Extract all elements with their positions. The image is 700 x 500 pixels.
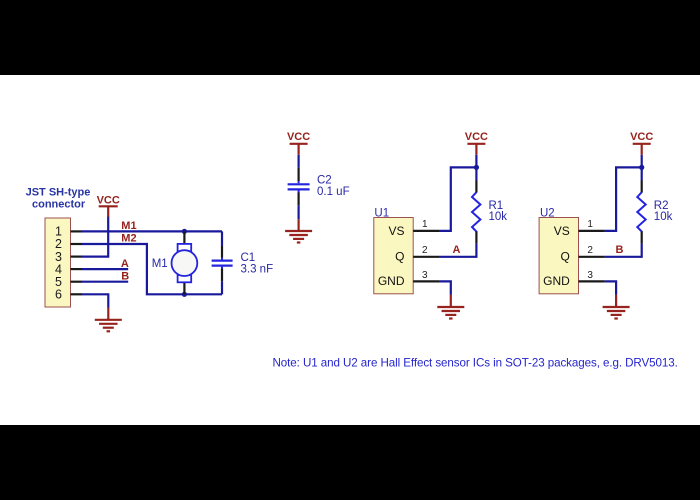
svg-text:JST SH-type: JST SH-type (26, 187, 91, 199)
svg-text:C2: C2 (317, 175, 332, 187)
svg-text:A: A (453, 244, 461, 256)
svg-text:connector: connector (32, 198, 86, 210)
svg-text:VCC: VCC (287, 131, 310, 143)
svg-text:GND: GND (543, 274, 570, 288)
svg-text:VCC: VCC (465, 131, 488, 143)
svg-text:1: 1 (422, 219, 428, 230)
svg-text:C1: C1 (241, 252, 256, 264)
svg-text:M1: M1 (121, 220, 136, 232)
svg-text:2: 2 (422, 245, 428, 256)
svg-text:VCC: VCC (630, 131, 653, 143)
svg-text:Q: Q (395, 250, 404, 264)
svg-text:3: 3 (422, 270, 428, 281)
svg-text:A: A (121, 258, 129, 270)
svg-text:10k: 10k (489, 211, 508, 223)
svg-text:0.1 uF: 0.1 uF (317, 186, 350, 198)
svg-text:3.3 nF: 3.3 nF (241, 264, 274, 276)
svg-text:6: 6 (55, 288, 62, 302)
svg-text:VS: VS (554, 224, 570, 238)
svg-text:Q: Q (560, 250, 569, 264)
svg-text:3: 3 (587, 270, 593, 281)
svg-text:B: B (616, 244, 624, 256)
svg-text:1: 1 (587, 219, 593, 230)
svg-text:Note: U1 and U2 are Hall Effec: Note: U1 and U2 are Hall Effect sensor I… (273, 357, 678, 370)
svg-text:M2: M2 (121, 232, 136, 244)
svg-text:M1: M1 (152, 258, 168, 270)
svg-text:B: B (121, 270, 129, 282)
svg-text:2: 2 (587, 245, 593, 256)
svg-text:GND: GND (378, 274, 405, 288)
svg-text:VCC: VCC (97, 194, 120, 206)
svg-text:VS: VS (388, 224, 404, 238)
svg-text:10k: 10k (654, 211, 673, 223)
